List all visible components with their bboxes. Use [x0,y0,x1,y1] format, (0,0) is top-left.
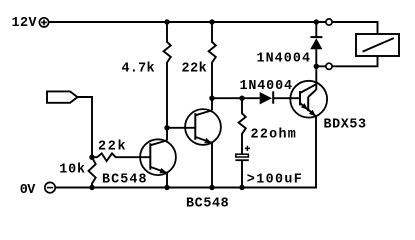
svg-text:>100uF: >100uF [247,172,302,187]
svg-text:BC548: BC548 [102,172,147,187]
svg-text:12V: 12V [12,16,38,31]
svg-text:BDX53: BDX53 [324,118,367,133]
svg-text:22k: 22k [182,62,207,77]
svg-text:22ohm: 22ohm [251,128,296,143]
svg-text:0V: 0V [20,183,36,198]
svg-text:1N4004: 1N4004 [240,79,293,94]
svg-text:22k: 22k [98,139,126,154]
svg-text:4.7k: 4.7k [122,62,155,77]
svg-text:1N4004: 1N4004 [257,52,311,67]
svg-text:BC548: BC548 [186,196,229,211]
svg-text:10k: 10k [59,163,85,178]
